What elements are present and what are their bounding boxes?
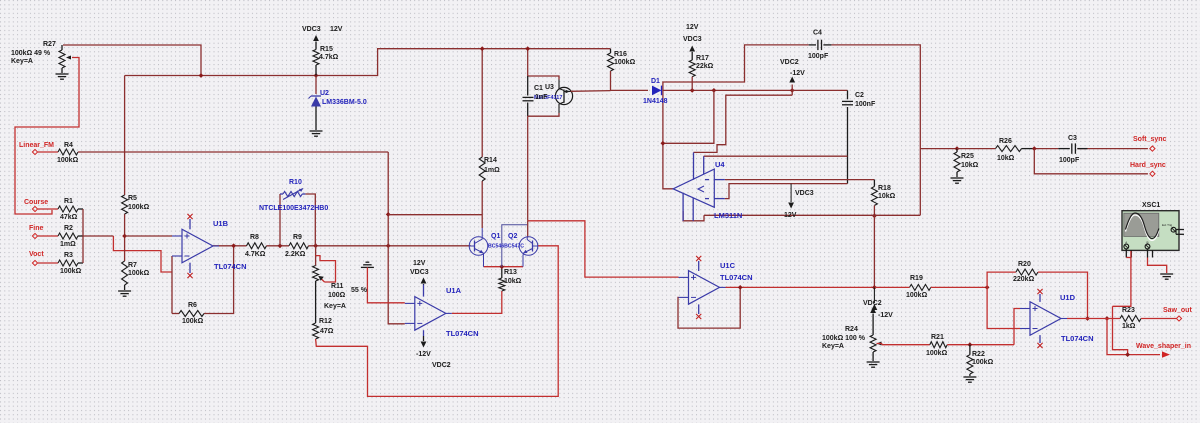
svg-text:R22: R22 bbox=[972, 351, 985, 358]
svg-text:-12V: -12V bbox=[416, 351, 431, 358]
svg-text:100pF: 100pF bbox=[808, 53, 829, 60]
svg-text:R26: R26 bbox=[999, 138, 1012, 145]
svg-text:12V: 12V bbox=[784, 212, 797, 219]
svg-text:U1C: U1C bbox=[720, 261, 736, 270]
svg-text:R11: R11 bbox=[331, 283, 344, 290]
svg-text:R23: R23 bbox=[1122, 307, 1135, 314]
svg-text:A: A bbox=[1125, 241, 1127, 245]
svg-text:R12: R12 bbox=[319, 318, 332, 325]
svg-text:1nF: 1nF bbox=[535, 94, 548, 101]
svg-text:R7: R7 bbox=[128, 262, 137, 269]
svg-text:R4: R4 bbox=[64, 142, 73, 149]
svg-text:R6: R6 bbox=[188, 302, 197, 309]
svg-text:100pF: 100pF bbox=[1059, 157, 1080, 164]
svg-text:100kΩ: 100kΩ bbox=[128, 204, 150, 211]
svg-text:Saw_out: Saw_out bbox=[1163, 307, 1192, 314]
svg-text:Course: Course bbox=[24, 199, 48, 206]
svg-text:2.2KΩ: 2.2KΩ bbox=[285, 251, 306, 258]
svg-text:100Ω: 100Ω bbox=[328, 292, 346, 299]
svg-text:R5: R5 bbox=[128, 195, 137, 202]
svg-text:TL074CN: TL074CN bbox=[214, 262, 247, 271]
svg-text:Fine: Fine bbox=[29, 225, 43, 232]
svg-text:R15: R15 bbox=[320, 46, 333, 53]
svg-text:12V: 12V bbox=[330, 26, 343, 33]
svg-text:R10: R10 bbox=[289, 179, 302, 186]
svg-text:1N4148: 1N4148 bbox=[643, 98, 668, 105]
svg-text:Voct: Voct bbox=[29, 251, 44, 258]
svg-text:Wave_shaper_in: Wave_shaper_in bbox=[1136, 343, 1191, 350]
svg-text:10kΩ: 10kΩ bbox=[504, 278, 522, 285]
svg-text:100kΩ: 100kΩ bbox=[926, 350, 948, 357]
svg-text:R24: R24 bbox=[845, 326, 858, 333]
svg-text:Linear_FM: Linear_FM bbox=[19, 142, 54, 149]
svg-text:C3: C3 bbox=[1068, 135, 1077, 142]
svg-text:U1A: U1A bbox=[446, 286, 462, 295]
svg-text:100kΩ 49 %: 100kΩ 49 % bbox=[11, 50, 51, 57]
svg-text:100kΩ: 100kΩ bbox=[972, 359, 994, 366]
svg-text:TL074CN: TL074CN bbox=[446, 329, 479, 338]
svg-text:Q1: Q1 bbox=[491, 233, 500, 240]
svg-text:Q2: Q2 bbox=[508, 233, 517, 240]
svg-text:VDC3: VDC3 bbox=[410, 269, 429, 276]
svg-text:U1B: U1B bbox=[213, 219, 229, 228]
svg-text:R20: R20 bbox=[1018, 261, 1031, 268]
svg-text:VDC3: VDC3 bbox=[795, 190, 814, 197]
svg-text:Key=A: Key=A bbox=[11, 58, 33, 65]
svg-text:Key=A: Key=A bbox=[822, 343, 844, 350]
svg-text:U3: U3 bbox=[545, 84, 554, 91]
svg-text:R25: R25 bbox=[961, 153, 974, 160]
svg-text:R16: R16 bbox=[614, 51, 627, 58]
svg-text:TL074CN: TL074CN bbox=[720, 273, 753, 282]
svg-text:C1: C1 bbox=[534, 85, 543, 92]
svg-text:TL074CN: TL074CN bbox=[1061, 334, 1094, 343]
svg-text:4.7kΩ: 4.7kΩ bbox=[319, 54, 339, 61]
svg-text:R2: R2 bbox=[64, 225, 73, 232]
svg-text:100kΩ: 100kΩ bbox=[60, 268, 82, 275]
svg-text:R18: R18 bbox=[878, 185, 891, 192]
svg-text:100kΩ 100 %: 100kΩ 100 % bbox=[822, 335, 866, 342]
svg-text:10kΩ: 10kΩ bbox=[961, 162, 979, 169]
svg-text:U4: U4 bbox=[715, 160, 725, 169]
svg-text:R17: R17 bbox=[696, 55, 709, 62]
svg-text:R19: R19 bbox=[910, 275, 923, 282]
svg-text:LM336BM-5.0: LM336BM-5.0 bbox=[322, 99, 367, 106]
svg-text:12V: 12V bbox=[686, 24, 699, 31]
svg-text:1mΩ: 1mΩ bbox=[60, 241, 76, 248]
svg-text:220kΩ: 220kΩ bbox=[1013, 276, 1035, 283]
svg-text:C4: C4 bbox=[813, 30, 822, 37]
svg-text:B: B bbox=[1147, 241, 1149, 245]
svg-text:R14: R14 bbox=[484, 157, 497, 164]
svg-text:U1D: U1D bbox=[1060, 293, 1076, 302]
svg-text:R21: R21 bbox=[931, 334, 944, 341]
svg-text:1mΩ: 1mΩ bbox=[484, 167, 500, 174]
svg-text:22kΩ: 22kΩ bbox=[696, 63, 714, 70]
svg-text:D1: D1 bbox=[651, 78, 660, 85]
svg-text:VDC3: VDC3 bbox=[302, 26, 321, 33]
svg-text:Hard_sync: Hard_sync bbox=[1130, 162, 1166, 169]
svg-text:NTCLE100E3472HB0: NTCLE100E3472HB0 bbox=[259, 205, 328, 212]
svg-text:R9: R9 bbox=[293, 234, 302, 241]
svg-text:Key=A: Key=A bbox=[324, 303, 346, 310]
svg-text:55 %: 55 % bbox=[351, 287, 368, 294]
svg-text:LM311N: LM311N bbox=[714, 211, 742, 220]
svg-text:100kΩ: 100kΩ bbox=[57, 157, 79, 164]
svg-text:1kΩ: 1kΩ bbox=[1122, 323, 1136, 330]
svg-text:BC546BC547C: BC546BC547C bbox=[488, 244, 524, 250]
svg-text:U2: U2 bbox=[320, 90, 329, 97]
svg-text:Ext Trig: Ext Trig bbox=[1162, 223, 1173, 227]
svg-text:R8: R8 bbox=[250, 234, 259, 241]
svg-text:10kΩ: 10kΩ bbox=[878, 193, 896, 200]
svg-text:47kΩ: 47kΩ bbox=[60, 214, 78, 221]
svg-text:Soft_sync: Soft_sync bbox=[1133, 136, 1167, 143]
svg-text:100kΩ: 100kΩ bbox=[182, 318, 204, 325]
svg-text:R13: R13 bbox=[504, 269, 517, 276]
svg-text:R27: R27 bbox=[43, 41, 56, 48]
svg-text:C2: C2 bbox=[855, 92, 864, 99]
svg-text:VDC2: VDC2 bbox=[780, 59, 799, 66]
svg-text:12V: 12V bbox=[413, 260, 426, 267]
svg-text:VDC2: VDC2 bbox=[863, 300, 882, 307]
svg-text:47Ω: 47Ω bbox=[320, 328, 334, 335]
svg-text:10kΩ: 10kΩ bbox=[997, 155, 1015, 162]
svg-text:-12V: -12V bbox=[878, 312, 893, 319]
svg-text:VDC2: VDC2 bbox=[432, 362, 451, 369]
svg-text:100nF: 100nF bbox=[855, 101, 876, 108]
svg-text:-12V: -12V bbox=[790, 70, 805, 77]
svg-text:XSC1: XSC1 bbox=[1142, 202, 1160, 209]
svg-text:100kΩ: 100kΩ bbox=[128, 270, 150, 277]
svg-text:VDC3: VDC3 bbox=[683, 36, 702, 43]
svg-text:100kΩ: 100kΩ bbox=[614, 59, 636, 66]
svg-text:R3: R3 bbox=[64, 252, 73, 259]
svg-text:4.7KΩ: 4.7KΩ bbox=[245, 251, 266, 258]
svg-text:R1: R1 bbox=[64, 198, 73, 205]
svg-text:100kΩ: 100kΩ bbox=[906, 292, 928, 299]
